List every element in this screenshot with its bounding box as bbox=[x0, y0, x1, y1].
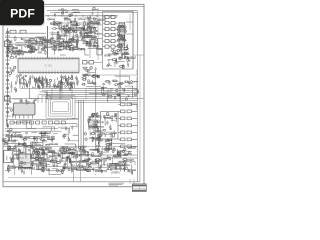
svg-text:PDF: PDF bbox=[10, 7, 35, 21]
svg-text:IC 501: IC 501 bbox=[45, 64, 53, 68]
